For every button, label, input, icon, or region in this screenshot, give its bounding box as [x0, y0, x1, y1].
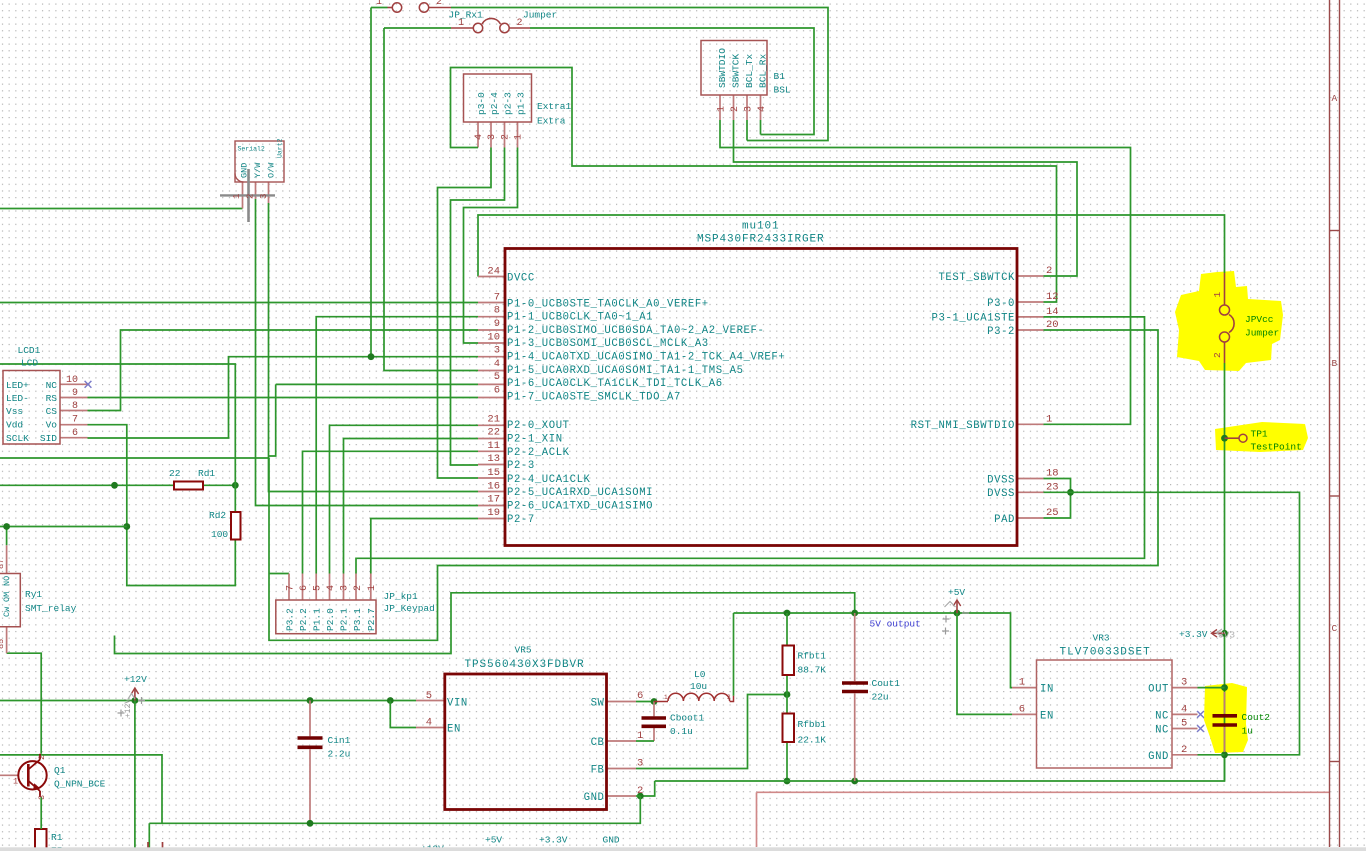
svg-text:1: 1 [664, 694, 668, 701]
svg-text:JP_Keypad: JP_Keypad [384, 603, 435, 614]
svg-text:22: 22 [487, 427, 500, 439]
svg-text:Y/W: Y/W [253, 162, 263, 178]
svg-text:Jumper: Jumper [523, 10, 557, 21]
svg-text:R1: R1 [51, 832, 63, 843]
svg-text:1: 1 [514, 134, 525, 140]
svg-text:2.2u: 2.2u [328, 749, 351, 760]
svg-text:6: 6 [72, 428, 78, 439]
svg-text:4: 4 [757, 106, 768, 112]
svg-text:NO: NO [2, 576, 12, 586]
svg-text:88.7K: 88.7K [798, 665, 827, 676]
svg-text:6: 6 [1019, 704, 1025, 716]
svg-text:P3.1: P3.1 [352, 608, 363, 631]
svg-text:2: 2 [730, 106, 741, 112]
svg-text:EN: EN [447, 724, 461, 736]
svg-text:P2.2: P2.2 [298, 608, 309, 631]
svg-text:Jumper: Jumper [1245, 328, 1279, 339]
svg-text:TEST_SBWTCK: TEST_SBWTCK [938, 272, 1015, 284]
svg-text:22: 22 [169, 468, 181, 479]
svg-text:GND: GND [240, 163, 250, 178]
svg-text:85: 85 [0, 639, 6, 649]
svg-text:P3-0: P3-0 [987, 298, 1015, 310]
svg-text:P3.2: P3.2 [285, 608, 296, 631]
svg-text:P2-1_XIN: P2-1_XIN [507, 434, 563, 446]
svg-text:12: 12 [1046, 291, 1059, 303]
svg-text:21: 21 [487, 413, 500, 425]
svg-text:RS: RS [46, 393, 58, 404]
svg-text:Vo: Vo [46, 420, 58, 431]
svg-text:DVSS: DVSS [987, 488, 1015, 500]
svg-text:IN: IN [1040, 684, 1054, 696]
svg-text:11: 11 [487, 440, 500, 452]
svg-text:7: 7 [286, 585, 297, 591]
svg-text:Vss: Vss [6, 406, 23, 417]
svg-text:P2-3: P2-3 [507, 460, 535, 472]
svg-text:16: 16 [487, 480, 500, 492]
svg-text:2: 2 [436, 0, 442, 8]
svg-text:JP_Rx1: JP_Rx1 [449, 10, 484, 21]
svg-text:JP_kp1: JP_kp1 [384, 591, 419, 602]
svg-text:RST_NMI_SBWTDIO: RST_NMI_SBWTDIO [911, 420, 1015, 432]
svg-text:TPS560430X3FDBVR: TPS560430X3FDBVR [465, 659, 585, 671]
svg-text:VIN: VIN [447, 698, 468, 710]
svg-text:L0: L0 [694, 669, 706, 680]
svg-text:SBWTCK: SBWTCK [731, 53, 742, 88]
svg-text:p1-3: p1-3 [516, 92, 527, 115]
svg-text:P1-2_UCB0SIMO_UCB0SDA_TA0~2_A2: P1-2_UCB0SIMO_UCB0SDA_TA0~2_A2_VEREF- [507, 325, 764, 337]
svg-text:VR3: VR3 [1093, 633, 1110, 644]
svg-text:VR5: VR5 [515, 645, 532, 656]
svg-text:Rd2: Rd2 [209, 510, 226, 521]
svg-text:19: 19 [487, 507, 500, 519]
svg-text:Uart2: Uart2 [277, 138, 284, 158]
svg-text:DVSS: DVSS [987, 474, 1015, 486]
svg-text:BSL: BSL [774, 85, 791, 96]
svg-text:mu101: mu101 [742, 221, 780, 233]
svg-text:10: 10 [487, 331, 500, 343]
svg-text:10: 10 [66, 375, 78, 386]
svg-text:4: 4 [326, 585, 337, 591]
svg-text:P3-2: P3-2 [987, 326, 1015, 338]
svg-text:Vdd: Vdd [6, 420, 23, 431]
svg-text:Serial2: Serial2 [238, 146, 265, 153]
svg-text:P1-4_UCA0TXD_UCA0SIMO_TA1-2_TC: P1-4_UCA0TXD_UCA0SIMO_TA1-2_TCK_A4_VREF+ [507, 352, 785, 364]
svg-text:Cw: Cw [2, 606, 12, 617]
svg-text:O/W: O/W [267, 162, 277, 178]
svg-text:NC: NC [46, 380, 58, 391]
svg-text:1: 1 [376, 0, 382, 8]
svg-text:LCD: LCD [21, 358, 38, 369]
svg-text:Rfbt1: Rfbt1 [798, 651, 827, 662]
svg-text:1u: 1u [1242, 726, 1253, 737]
svg-text:5: 5 [313, 585, 324, 591]
svg-text:9: 9 [72, 388, 78, 399]
svg-text:p2-4: p2-4 [489, 92, 500, 115]
svg-text:9: 9 [494, 318, 500, 330]
svg-text:CS: CS [46, 406, 58, 417]
svg-text:SID: SID [40, 433, 57, 444]
svg-text:P1-7_UCA0STE_SMCLK_TDO_A7: P1-7_UCA0STE_SMCLK_TDO_A7 [507, 391, 681, 403]
svg-text:6: 6 [637, 690, 643, 702]
svg-text:Extra1: Extra1 [537, 101, 572, 112]
svg-text:LED+: LED+ [6, 380, 29, 391]
svg-text:BCL_Rx: BCL_Rx [758, 53, 769, 88]
svg-text:GND: GND [584, 792, 605, 804]
svg-text:6: 6 [494, 385, 500, 397]
svg-text:22.1K: 22.1K [798, 735, 827, 746]
svg-text:3: 3 [637, 758, 643, 770]
svg-text:2: 2 [246, 194, 256, 199]
svg-text:5: 5 [1181, 718, 1187, 730]
svg-text:Rfbb1: Rfbb1 [798, 719, 827, 730]
svg-text:P3-1_UCA1STE: P3-1_UCA1STE [932, 313, 1016, 325]
svg-text:LCD1: LCD1 [18, 345, 41, 356]
svg-text:P1-3_UCB0SOMI_UCB0SCL_MCLK_A3: P1-3_UCB0SOMI_UCB0SCL_MCLK_A3 [507, 338, 709, 350]
svg-text:+12V: +12V [124, 699, 133, 718]
svg-text:+5V: +5V [948, 587, 965, 598]
svg-text:25: 25 [1046, 507, 1059, 519]
svg-text:JPVcc: JPVcc [1245, 314, 1274, 325]
svg-text:4: 4 [1181, 704, 1187, 716]
svg-text:P2.1: P2.1 [339, 608, 350, 631]
svg-text:1: 1 [13, 777, 18, 787]
svg-text:P1-0_UCB0STE_TA0CLK_A0_VEREF+: P1-0_UCB0STE_TA0CLK_A0_VEREF+ [507, 298, 709, 310]
svg-text:2: 2 [637, 785, 643, 797]
svg-text:B: B [1332, 358, 1338, 369]
svg-text:0.1u: 0.1u [670, 726, 693, 737]
svg-text:EN: EN [1040, 711, 1054, 723]
svg-text:4: 4 [494, 358, 500, 370]
svg-text:Extra: Extra [537, 116, 566, 127]
svg-text:2: 2 [37, 755, 47, 760]
svg-text:P2-5_UCA1RXD_UCA1SOMI: P2-5_UCA1RXD_UCA1SOMI [507, 487, 653, 499]
svg-text:SBWTDIO: SBWTDIO [717, 48, 728, 88]
svg-text:3: 3 [1181, 677, 1187, 689]
svg-text:OM: OM [2, 592, 12, 602]
svg-text:LED-: LED- [6, 393, 29, 404]
svg-text:TP1: TP1 [1251, 429, 1268, 440]
svg-text:P1-6_UCA0CLK_TA1CLK_TDI_TCLK_A: P1-6_UCA0CLK_TA1CLK_TDI_TCLK_A6 [507, 378, 723, 390]
svg-text:1: 1 [717, 106, 728, 112]
svg-text:24: 24 [487, 266, 500, 278]
svg-text:15: 15 [487, 467, 500, 479]
svg-text:3: 3 [744, 106, 755, 112]
svg-text:1: 1 [458, 18, 464, 29]
svg-text:3: 3 [494, 345, 500, 357]
svg-text:P1-5_UCA0RXD_UCA0SOMI_TA1-1_TM: P1-5_UCA0RXD_UCA0SOMI_TA1-1_TMS_A5 [507, 365, 744, 377]
svg-text:2: 2 [517, 18, 523, 29]
svg-text:3: 3 [487, 134, 498, 140]
svg-text:p3-0: p3-0 [476, 92, 487, 115]
svg-text:DVCC: DVCC [507, 272, 535, 284]
svg-text:Cin1: Cin1 [328, 735, 351, 746]
svg-text:2: 2 [1046, 265, 1052, 277]
svg-text:Cout2: Cout2 [1242, 712, 1271, 723]
svg-text:Q_NPN_BCE: Q_NPN_BCE [54, 779, 106, 790]
svg-text:6: 6 [299, 585, 310, 591]
svg-text:5: 5 [426, 690, 432, 702]
svg-text:3: 3 [37, 795, 47, 800]
svg-text:1: 1 [1046, 413, 1052, 425]
svg-text:Rd1: Rd1 [198, 468, 215, 479]
svg-text:P2-4_UCA1CLK: P2-4_UCA1CLK [507, 474, 591, 486]
svg-text:17: 17 [487, 494, 500, 506]
svg-text:P1.1: P1.1 [312, 608, 323, 631]
svg-text:1: 1 [637, 730, 643, 742]
svg-text:P2.0: P2.0 [325, 608, 336, 631]
svg-text:7: 7 [72, 415, 78, 426]
svg-text:7: 7 [494, 292, 500, 304]
svg-text:2: 2 [727, 694, 731, 701]
svg-text:20: 20 [1046, 319, 1059, 331]
svg-text:Q1: Q1 [54, 765, 66, 776]
svg-text:13: 13 [487, 453, 500, 465]
svg-text:87: 87 [0, 559, 6, 569]
svg-text:Cout1: Cout1 [872, 678, 901, 689]
svg-text:SCLK: SCLK [6, 433, 29, 444]
svg-text:2: 2 [1212, 352, 1223, 358]
svg-text:14: 14 [1046, 306, 1059, 318]
svg-text:+12V: +12V [124, 674, 147, 685]
svg-text:18: 18 [1046, 468, 1059, 480]
svg-text:5V output: 5V output [870, 619, 921, 630]
svg-text:4: 4 [426, 717, 432, 729]
svg-text:2: 2 [353, 585, 364, 591]
svg-text:1: 1 [232, 194, 242, 199]
svg-text:100: 100 [211, 529, 228, 540]
svg-text:+3.3V: +3.3V [539, 835, 568, 846]
svg-text:MSP430FR2433IRGER: MSP430FR2433IRGER [697, 234, 825, 246]
svg-text:A: A [1332, 93, 1338, 104]
svg-text:GND: GND [1148, 751, 1169, 763]
svg-text:3: 3 [259, 194, 269, 199]
svg-text:FB: FB [591, 765, 605, 777]
svg-text:P1-1_UCB0CLK_TA0~1_A1: P1-1_UCB0CLK_TA0~1_A1 [507, 312, 653, 324]
svg-text:SW: SW [591, 698, 605, 710]
svg-text:NC: NC [1155, 725, 1169, 737]
svg-text:P2-0_XOUT: P2-0_XOUT [507, 420, 570, 432]
svg-text:TestPoint: TestPoint [1251, 442, 1302, 453]
svg-text:CB: CB [591, 737, 605, 749]
svg-text:Cboot1: Cboot1 [670, 713, 705, 724]
svg-text:PAD: PAD [994, 514, 1015, 526]
svg-text:4: 4 [474, 134, 485, 140]
svg-text:+5V: +5V [485, 835, 502, 846]
svg-text:3: 3 [340, 585, 351, 591]
svg-text:SMT_relay: SMT_relay [25, 603, 77, 614]
svg-text:TLV70033DSET: TLV70033DSET [1060, 647, 1151, 659]
svg-text:23: 23 [1046, 481, 1059, 493]
svg-text:p2-3: p2-3 [503, 92, 514, 115]
svg-text:B1: B1 [774, 71, 786, 82]
svg-text:8: 8 [72, 401, 78, 412]
svg-text:BCL_Tx: BCL_Tx [744, 53, 755, 88]
svg-text:P2-2_ACLK: P2-2_ACLK [507, 447, 570, 459]
svg-text:NC: NC [1155, 711, 1169, 723]
svg-text:1: 1 [1212, 292, 1223, 298]
svg-text:1: 1 [1019, 677, 1025, 689]
svg-text:C: C [1332, 623, 1338, 634]
svg-text:P2-6_UCA1TXD_UCA1SIMO: P2-6_UCA1TXD_UCA1SIMO [507, 501, 653, 513]
svg-text:10u: 10u [690, 681, 707, 692]
svg-text:P2.7: P2.7 [366, 608, 377, 631]
svg-text:1: 1 [367, 585, 378, 591]
svg-text:2: 2 [1181, 744, 1187, 756]
svg-text:GND: GND [603, 835, 620, 846]
svg-text:+3.3V: +3.3V [1179, 629, 1208, 640]
svg-text:22u: 22u [872, 692, 889, 703]
svg-text:2: 2 [501, 134, 512, 140]
svg-text:OUT: OUT [1148, 684, 1169, 696]
svg-text:Ry1: Ry1 [25, 589, 42, 600]
svg-text:8: 8 [494, 305, 500, 317]
svg-text:5: 5 [494, 371, 500, 383]
svg-text:P2-7: P2-7 [507, 514, 535, 526]
